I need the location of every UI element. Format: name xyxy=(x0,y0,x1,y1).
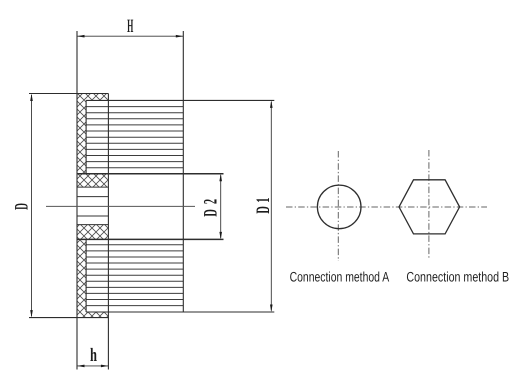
svg-text:H: H xyxy=(127,16,133,37)
svg-text:D2: D2 xyxy=(201,194,222,217)
svg-text:D1: D1 xyxy=(253,194,274,213)
svg-text:Connection method B: Connection method B xyxy=(406,269,509,284)
svg-text:D: D xyxy=(11,203,32,210)
svg-text:h: h xyxy=(90,345,97,366)
svg-text:Connection method A: Connection method A xyxy=(290,270,390,285)
